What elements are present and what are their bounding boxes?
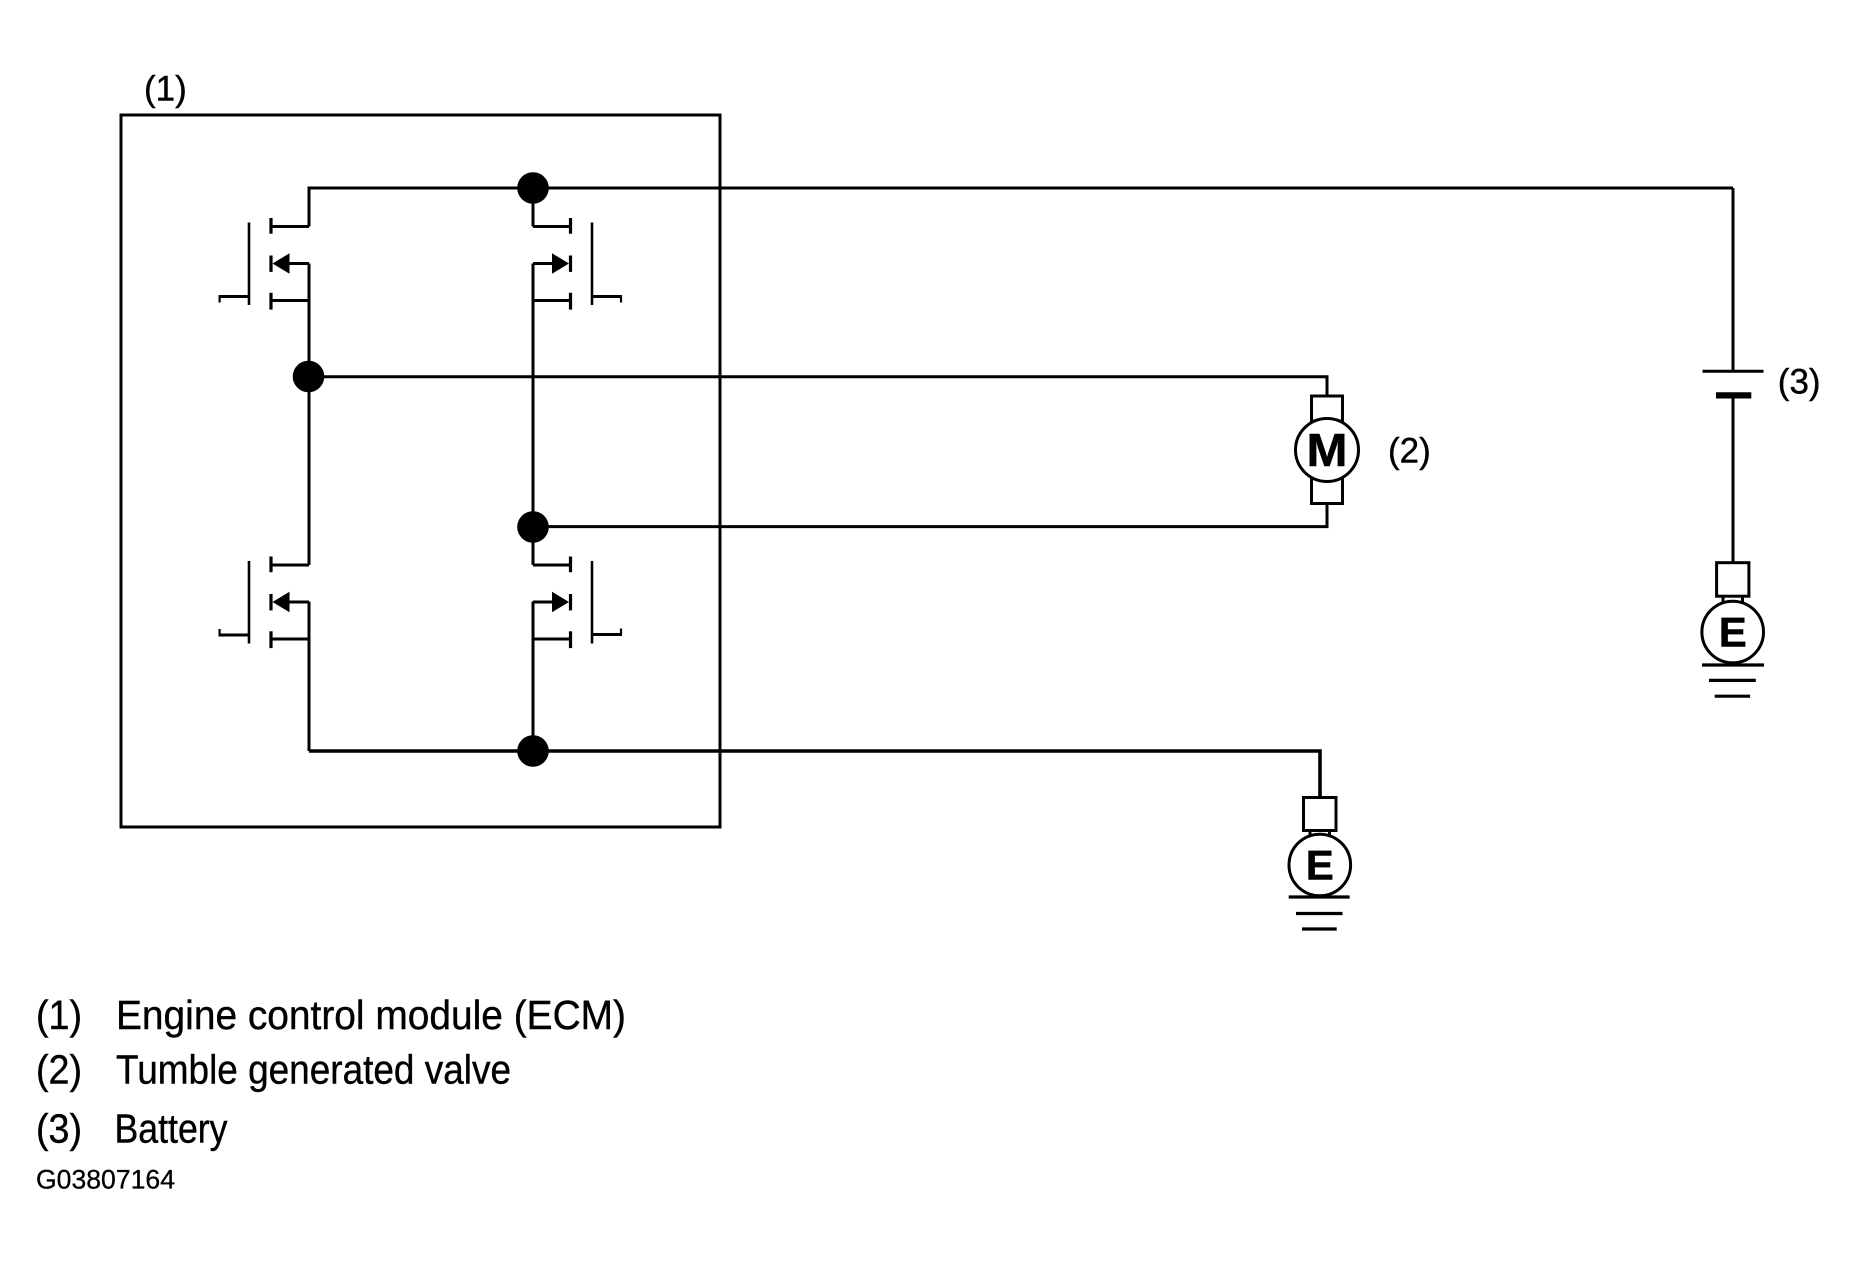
- svg-text:E: E: [1719, 609, 1747, 656]
- svg-text:E: E: [1306, 842, 1334, 889]
- ground E right (body ground): [1717, 563, 1749, 604]
- wire rail A lower segment (Q3 source to bottom wire): [308, 602, 311, 752]
- wire rail A upper segment (Q1 drain): [308, 187, 311, 227]
- svg-text:(2): (2): [36, 1047, 82, 1093]
- svg-text:M: M: [1307, 424, 1348, 476]
- svg-text:Engine control module (ECM): Engine control module (ECM): [116, 992, 626, 1038]
- junction dot node C (motor return): [517, 511, 549, 543]
- wire battery to ground E right: [1732, 398, 1735, 564]
- motor M (2) tumble generated valve: [1312, 396, 1343, 504]
- wire rail B mid segment (Q2 source to Q4 drain): [532, 264, 535, 566]
- transistor Q4 (lower-right MOSFET): [533, 557, 622, 649]
- svg-text:(2): (2): [1388, 431, 1431, 470]
- wire middle to motor top: [309, 377, 1327, 398]
- wire rail A mid segment (Q1 source to Q3 drain): [308, 264, 311, 566]
- junction dot node A (top): [517, 172, 549, 204]
- wire rail B lower segment (Q4 source to bottom wire): [532, 602, 535, 752]
- junction dot node D (bottom): [517, 735, 549, 767]
- ground E middle (body ground): [1304, 798, 1337, 839]
- svg-text:G03807164: G03807164: [36, 1165, 175, 1195]
- junction dot node B (middle left): [293, 361, 325, 393]
- wire rail B upper segment (Q2 drain): [532, 188, 535, 227]
- svg-text:Battery: Battery: [115, 1106, 228, 1152]
- svg-text:(3): (3): [36, 1106, 82, 1152]
- transistor Q2 (upper-right MOSFET): [533, 218, 622, 310]
- wire motor bottom to rail B: [533, 503, 1327, 527]
- svg-text:(1): (1): [144, 69, 187, 108]
- transistor Q3 (lower-left MOSFET): [219, 557, 310, 649]
- wire battery drop leg: [1732, 188, 1735, 371]
- wire bottom to ground E middle: [309, 751, 1320, 799]
- svg-text:(1): (1): [36, 992, 82, 1038]
- ECM module box U1 (Engine control module): [121, 115, 720, 827]
- battery (3): [1703, 371, 1764, 395]
- svg-text:Tumble generated valve: Tumble generated valve: [116, 1047, 511, 1093]
- wire top rail from Q1 drain to battery: [309, 187, 1733, 190]
- svg-text:(3): (3): [1778, 363, 1821, 402]
- transistor Q1 (upper-left MOSFET): [219, 218, 310, 310]
